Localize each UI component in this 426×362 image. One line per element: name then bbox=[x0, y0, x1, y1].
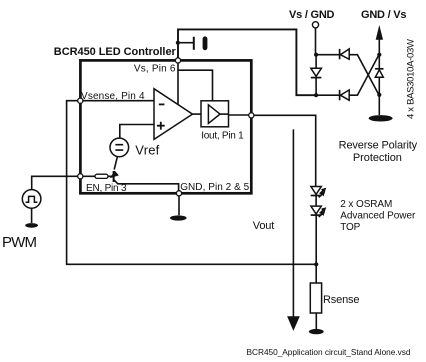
svg-text:BCR450_Application circuit_Sta: BCR450_Application circuit_Stand Alone.v… bbox=[247, 347, 411, 357]
LED D6 bbox=[311, 206, 327, 217]
svg-text:Rsense: Rsense bbox=[323, 294, 360, 306]
svg-text:Advanced Power: Advanced Power bbox=[340, 210, 416, 221]
svg-text:Vsense, Pin 4: Vsense, Pin 4 bbox=[81, 91, 145, 102]
svg-text:Vref: Vref bbox=[135, 143, 159, 158]
junction cap tap bbox=[176, 41, 180, 45]
wire LED1 to LED2 bbox=[315, 196, 317, 207]
svg-text:TOP: TOP bbox=[340, 222, 360, 233]
diode D3 bottom horizontal bbox=[316, 55, 379, 101]
terminal Vs/GND bbox=[312, 22, 318, 28]
svg-text:BCR450 LED Controller: BCR450 LED Controller bbox=[54, 46, 177, 58]
wire inverting input from Vsense bbox=[81, 100, 154, 102]
wire op-amp out to buffer bbox=[193, 113, 202, 115]
wire GND pin down bbox=[178, 195, 180, 216]
wire emitter to GND pin bbox=[114, 180, 179, 192]
node Vsense pin bbox=[78, 98, 83, 103]
wire LED2 to Rsense bbox=[315, 215, 317, 283]
PWM source bbox=[22, 176, 79, 227]
svg-text:Vs, Pin 6: Vs, Pin 6 bbox=[134, 64, 176, 75]
op-amp U1 bbox=[154, 89, 193, 140]
wire Iout external to LED string bbox=[253, 115, 316, 186]
Vout annotation arrow bbox=[287, 129, 300, 331]
wire cap tap stub bbox=[178, 42, 193, 44]
svg-text:Vs / GND: Vs / GND bbox=[289, 9, 335, 21]
junction bridge top-left bbox=[314, 53, 318, 57]
resistor Rsense bbox=[310, 283, 321, 313]
svg-text:Protection: Protection bbox=[353, 152, 402, 164]
wire pill to base bbox=[108, 175, 113, 177]
wire buffer to Iout pin bbox=[229, 114, 251, 116]
LED D5 bbox=[311, 187, 327, 198]
wire top Vs rail bbox=[178, 29, 315, 95]
wire Rsense to ground bbox=[315, 313, 317, 329]
svg-text:PWM: PWM bbox=[2, 234, 37, 251]
transistor Q1 base bar bbox=[113, 171, 115, 182]
diode D1 down bbox=[311, 55, 322, 95]
diode D2 top horizontal bbox=[316, 49, 379, 95]
capacitor C1 bbox=[194, 37, 205, 50]
svg-text:Vout: Vout bbox=[253, 220, 274, 232]
svg-text:Iout, Pin 1: Iout, Pin 1 bbox=[201, 130, 244, 141]
wire Vref to transistor bbox=[114, 157, 117, 170]
GND/Vs arrow bbox=[376, 25, 383, 69]
node Vs pin bbox=[175, 58, 180, 63]
svg-text:GND, Pin 2 & 5: GND, Pin 2 & 5 bbox=[180, 182, 249, 193]
Vref source V1 bbox=[110, 138, 129, 157]
svg-text:4 x BAS3010A-03W: 4 x BAS3010A-03W bbox=[406, 39, 417, 119]
wire Vs branch to buffer bbox=[178, 70, 213, 101]
node GND pin bbox=[176, 191, 181, 196]
svg-text:2 x OSRAM: 2 x OSRAM bbox=[340, 199, 392, 210]
svg-text:EN, Pin 3: EN, Pin 3 bbox=[86, 183, 127, 194]
ground bridge bbox=[369, 115, 393, 121]
junction bridge bottom-left bbox=[314, 93, 318, 97]
wire terminal down bbox=[315, 28, 317, 55]
buffer box Iout bbox=[201, 101, 229, 127]
svg-text:Reverse Polarity: Reverse Polarity bbox=[339, 139, 418, 151]
node EN pin bbox=[78, 174, 83, 179]
diode D4 up bbox=[375, 69, 383, 115]
wire non-inverting input to Vref bbox=[120, 125, 154, 139]
op-amp plus sign bbox=[157, 122, 165, 130]
svg-text:GND / Vs: GND / Vs bbox=[361, 9, 407, 21]
wire Vs pin to op-amp top bbox=[177, 62, 179, 105]
wire EN pin to pill bbox=[81, 175, 95, 177]
resistor R1 pill on EN bbox=[95, 174, 108, 178]
op-amp minus sign bbox=[159, 103, 165, 105]
transistor Q1 arrow bbox=[110, 171, 119, 179]
wire Vsense feedback bbox=[67, 101, 317, 265]
junction bridge bottom-right bbox=[377, 93, 381, 97]
junction bridge top-right bbox=[377, 53, 381, 57]
BCR450 box bbox=[80, 60, 251, 193]
node Iout pin bbox=[249, 113, 254, 118]
ground below box bbox=[170, 215, 187, 220]
junction feedback node bbox=[314, 262, 318, 266]
ground below Rsense bbox=[309, 329, 324, 334]
